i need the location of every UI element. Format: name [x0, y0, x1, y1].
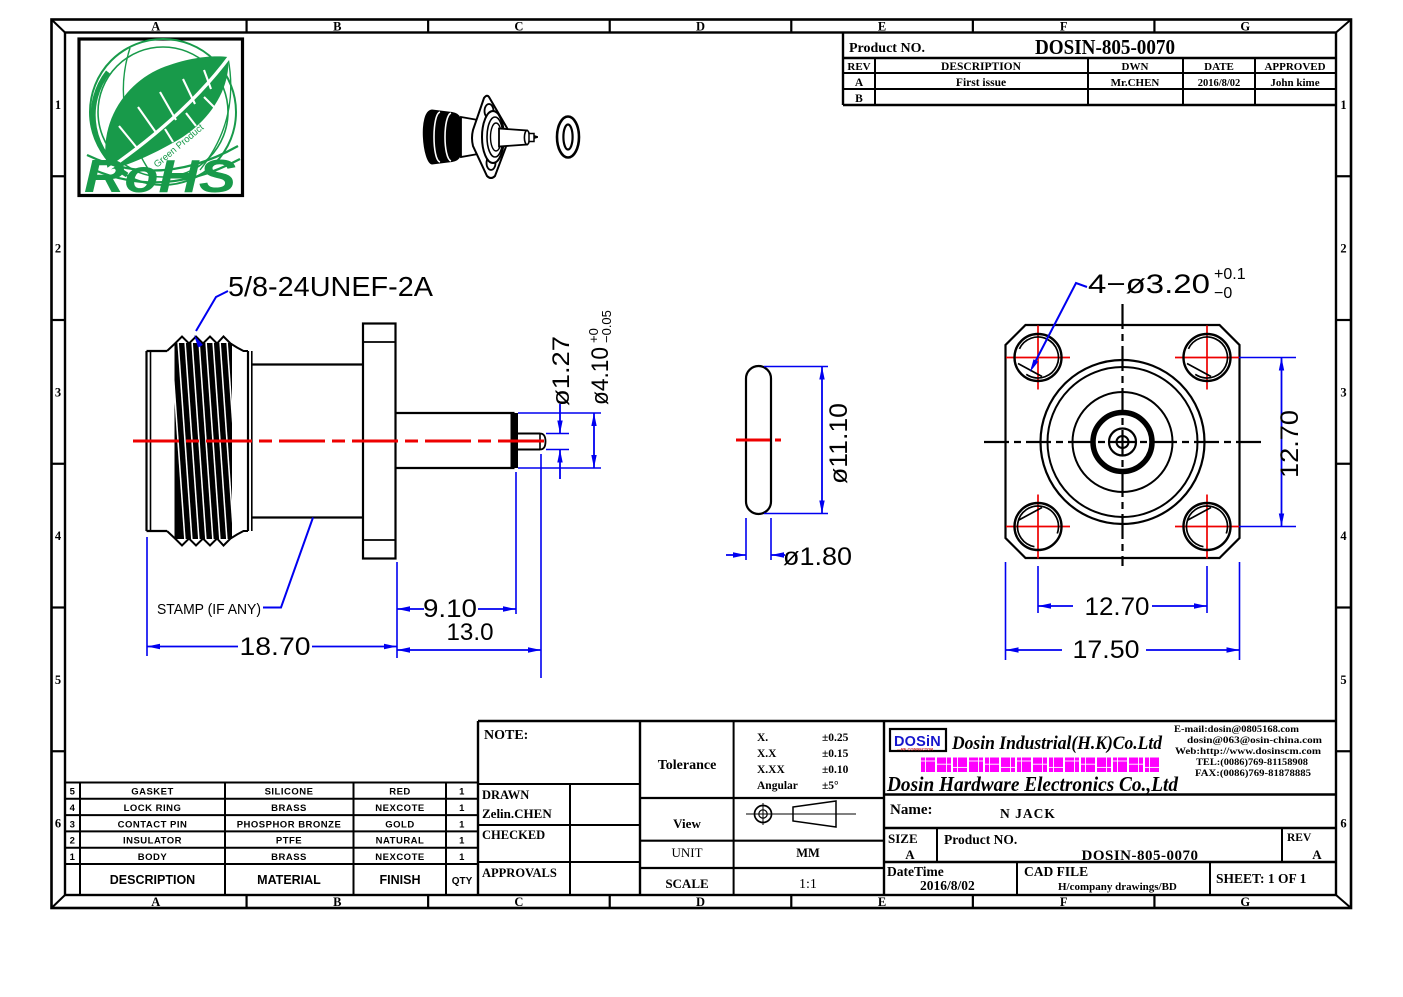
dimension 17.50 flange width — [1006, 562, 1240, 664]
svg-text:N JACK: N JACK — [1000, 806, 1056, 821]
svg-text:5: 5 — [70, 787, 76, 798]
parts list table — [65, 783, 478, 896]
svg-text:C: C — [514, 20, 523, 34]
svg-text:Product NO.: Product NO. — [944, 832, 1017, 847]
svg-text:DRAWN: DRAWN — [482, 788, 529, 802]
svg-text:CHECKED: CHECKED — [482, 828, 545, 842]
svg-text:−0: −0 — [1214, 285, 1232, 302]
svg-text:2: 2 — [70, 836, 76, 847]
svg-text:DESCRIPTION: DESCRIPTION — [110, 873, 195, 887]
svg-text:D: D — [696, 895, 705, 909]
svg-text:X.: X. — [757, 732, 768, 744]
svg-text:2: 2 — [1340, 242, 1346, 256]
front view: mounting hole 2 with red crosshair — [1175, 326, 1239, 390]
svg-text:Product NO.: Product NO. — [849, 41, 925, 56]
svg-text:Web:http://www.dosinscm.com: Web:http://www.dosinscm.com — [1175, 747, 1321, 757]
svg-text:4: 4 — [55, 529, 62, 543]
svg-text:X.X: X.X — [757, 748, 777, 760]
side view: thread end faces — [248, 351, 252, 531]
svg-text:SIZE: SIZE — [888, 831, 918, 846]
svg-text:B: B — [333, 20, 341, 34]
svg-text:A: A — [1312, 847, 1322, 862]
svg-text:NEXCOTE: NEXCOTE — [375, 852, 424, 863]
svg-text:1: 1 — [1340, 98, 1346, 112]
side view: red centerline — [133, 440, 549, 443]
company names — [951, 733, 1162, 754]
svg-text:DOSIN-805-0070: DOSIN-805-0070 — [1081, 848, 1198, 864]
svg-text:5: 5 — [1340, 673, 1346, 687]
svg-text:LOCK RING: LOCK RING — [124, 803, 182, 814]
svg-text:A: A — [855, 77, 864, 89]
svg-text:ø1.27: ø1.27 — [548, 336, 575, 406]
svg-text:APPROVED: APPROVED — [1264, 61, 1325, 73]
svg-text:3: 3 — [1340, 385, 1346, 399]
svg-text:B: B — [855, 93, 863, 105]
svg-text:View: View — [673, 816, 701, 831]
dimension dia 4.10 shaft with tolerance — [518, 310, 614, 468]
svg-text:5: 5 — [55, 673, 61, 687]
svg-text:G: G — [1240, 20, 1250, 34]
svg-text:FINISH: FINISH — [380, 873, 421, 887]
svg-text:B: B — [333, 895, 341, 909]
svg-text:Dosin Hardware Electronics Co.: Dosin Hardware Electronics Co.,Ltd — [886, 772, 1179, 796]
svg-text:GOLD: GOLD — [385, 819, 414, 830]
svg-text:Zelin.CHEN: Zelin.CHEN — [482, 806, 552, 821]
svg-text:−0.05: −0.05 — [599, 310, 614, 343]
svg-text:—RF CONNECTOR: —RF CONNECTOR — [897, 747, 933, 752]
svg-text:F: F — [1060, 895, 1068, 909]
svg-text:ø4.10: ø4.10 — [587, 347, 614, 405]
dimension 12.70 horizontal hole spacing — [1038, 566, 1207, 621]
svg-text:CAD FILE: CAD FILE — [1024, 864, 1088, 879]
svg-text:First issue: First issue — [956, 77, 1006, 89]
svg-text:1: 1 — [459, 852, 465, 863]
datetime / cad file / sheet row — [887, 864, 1307, 893]
svg-text:Angular: Angular — [757, 780, 798, 792]
svg-text:1: 1 — [70, 852, 76, 863]
svg-text:3: 3 — [70, 819, 76, 830]
front view: dashed centerlines — [984, 304, 1262, 566]
label STAMP (IF ANY) with leader — [157, 518, 313, 619]
svg-text:Name:: Name: — [890, 802, 932, 818]
svg-text:H/company drawings/BD: H/company drawings/BD — [1058, 881, 1177, 893]
svg-text:SHEET: 1 OF 1: SHEET: 1 OF 1 — [1216, 871, 1307, 886]
third angle projection symbol — [746, 801, 856, 827]
dimension 18.70 overall length — [147, 537, 397, 661]
note and signature block — [478, 721, 1336, 895]
side view: thread hatching — [171, 341, 248, 541]
svg-text:dosin@063@osin-china.com: dosin@063@osin-china.com — [1187, 736, 1322, 746]
svg-text:4−ø3.20: 4−ø3.20 — [1088, 269, 1210, 299]
front view: mounting hole 1 with red crosshair — [1006, 326, 1070, 390]
svg-text:STAMP (IF ANY): STAMP (IF ANY) — [157, 602, 261, 618]
svg-text:C: C — [514, 895, 523, 909]
svg-text:NEXCOTE: NEXCOTE — [375, 803, 424, 814]
svg-text:MM: MM — [796, 846, 820, 860]
svg-text:A: A — [151, 895, 160, 909]
svg-text:PHOSPHOR BRONZE: PHOSPHOR BRONZE — [237, 819, 342, 830]
svg-text:1:1: 1:1 — [799, 877, 817, 892]
revision history table — [843, 33, 1336, 106]
svg-text:1: 1 — [459, 836, 465, 847]
svg-text:INSULATOR: INSULATOR — [123, 836, 182, 847]
svg-text:GASKET: GASKET — [131, 787, 174, 798]
tolerance / view / unit / scale block — [640, 721, 884, 895]
front view: square flange plate — [1006, 325, 1240, 558]
svg-text:ø1.80: ø1.80 — [783, 543, 852, 571]
side view: body cylinder — [252, 365, 363, 518]
svg-text:TEL:(0086)769-81158908: TEL:(0086)769-81158908 — [1196, 757, 1308, 768]
svg-text:13.0: 13.0 — [447, 619, 494, 646]
dimension dia 11.10 gasket — [764, 367, 853, 514]
svg-text:4: 4 — [1340, 529, 1347, 543]
company logo and title block — [884, 721, 1336, 895]
svg-text:±0.25: ±0.25 — [822, 732, 849, 744]
svg-text:CONTACT PIN: CONTACT PIN — [118, 819, 188, 830]
svg-text:RED: RED — [389, 787, 411, 798]
front view: mounting hole 4 with red crosshair — [1175, 495, 1239, 559]
dimension 13.0 to pin tip — [397, 454, 541, 678]
svg-text:2016/8/02: 2016/8/02 — [1198, 78, 1241, 89]
dimension dia 1.80 gasket thickness — [726, 518, 852, 571]
dimension 9.10 shaft length — [397, 472, 516, 623]
svg-text:SILICONE: SILICONE — [265, 787, 314, 798]
svg-text:DOSIN-805-0070: DOSIN-805-0070 — [1035, 35, 1175, 59]
svg-text:NATURAL: NATURAL — [376, 836, 425, 847]
svg-text:1: 1 — [459, 787, 465, 798]
svg-text:4: 4 — [70, 803, 76, 814]
svg-text:RoHS: RoHS — [84, 150, 236, 202]
svg-text:1: 1 — [459, 819, 465, 830]
svg-text:6: 6 — [55, 817, 61, 831]
gasket side view capsule — [746, 366, 771, 514]
side view: rear shaft — [396, 413, 519, 468]
svg-text:12.70: 12.70 — [1085, 593, 1150, 621]
svg-text:±5°: ±5° — [822, 780, 839, 792]
svg-text:DWN: DWN — [1122, 61, 1149, 73]
svg-text:A: A — [905, 847, 915, 862]
front view: concentric circles of connector interface — [1041, 360, 1205, 524]
gasket red centerline — [736, 439, 781, 442]
svg-text:A: A — [151, 20, 160, 34]
svg-text:QTY: QTY — [452, 876, 473, 887]
side view: mounting flange — [363, 324, 396, 559]
svg-text:APPROVALS: APPROVALS — [482, 866, 557, 880]
dimension 4-dia3.20 hole callout — [1028, 266, 1246, 373]
svg-text:ø11.10: ø11.10 — [825, 403, 853, 484]
svg-text:REV: REV — [1287, 832, 1312, 844]
svg-text:E: E — [878, 20, 886, 34]
side view: connector body outline — [147, 337, 249, 546]
dimension 5/8-24UNEF-2A thread callout — [192, 271, 434, 348]
svg-text:18.70: 18.70 — [240, 633, 311, 661]
svg-text:2016/8/02: 2016/8/02 — [920, 878, 975, 893]
svg-text:Dosin Industrial(H.K)Co.Ltd: Dosin Industrial(H.K)Co.Ltd — [951, 733, 1162, 754]
svg-text:1: 1 — [55, 98, 61, 112]
svg-text:NOTE:: NOTE: — [484, 728, 528, 743]
svg-text:BRASS: BRASS — [271, 852, 307, 863]
svg-text:±0.10: ±0.10 — [822, 764, 849, 776]
svg-text:DateTime: DateTime — [887, 864, 944, 879]
svg-text:17.50: 17.50 — [1073, 636, 1140, 664]
svg-text:E-mail:dosin@0805168.com: E-mail:dosin@0805168.com — [1174, 725, 1299, 735]
svg-text:2: 2 — [55, 242, 61, 256]
svg-text:Tolerance: Tolerance — [658, 758, 717, 773]
svg-text:Mr.CHEN: Mr.CHEN — [1111, 77, 1160, 89]
svg-text:5/8-24UNEF-2A: 5/8-24UNEF-2A — [228, 271, 433, 302]
svg-text:FAX:(0086)769-81878885: FAX:(0086)769-81878885 — [1195, 768, 1311, 779]
svg-text:UNIT: UNIT — [671, 845, 702, 860]
DOSIN blue logo — [890, 729, 946, 752]
svg-text:E: E — [878, 895, 886, 909]
svg-text:John kime: John kime — [1270, 77, 1319, 89]
svg-text:6: 6 — [1340, 817, 1346, 831]
front view: mounting hole 3 with red crosshair — [1006, 495, 1070, 559]
svg-text:MATERIAL: MATERIAL — [257, 873, 321, 887]
svg-text:12.70: 12.70 — [1276, 410, 1304, 478]
dimension 12.70 vertical hole spacing — [1239, 358, 1304, 527]
svg-text:X.XX: X.XX — [757, 764, 785, 776]
dimension dia 1.27 pin — [546, 336, 575, 479]
svg-text:SCALE: SCALE — [665, 876, 708, 891]
contact info — [1174, 725, 1322, 779]
svg-text:PTFE: PTFE — [276, 836, 302, 847]
svg-text:±0.15: ±0.15 — [822, 748, 849, 760]
svg-text:F: F — [1060, 20, 1068, 34]
size / product no / rev row — [888, 831, 1322, 864]
unit and scale cells — [665, 845, 820, 892]
svg-text:BODY: BODY — [138, 852, 168, 863]
svg-text:1: 1 — [459, 803, 465, 814]
svg-text:+0.1: +0.1 — [1214, 266, 1246, 283]
side view: contact pin tail — [518, 434, 546, 450]
svg-text:BRASS: BRASS — [271, 803, 307, 814]
svg-text:G: G — [1240, 895, 1250, 909]
chinese company name (stylized blocks) — [921, 758, 1159, 773]
svg-text:DATE: DATE — [1204, 61, 1234, 73]
svg-text:3: 3 — [55, 385, 61, 399]
RoHS green product logo — [79, 39, 243, 202]
name row — [890, 802, 1056, 821]
svg-text:D: D — [696, 20, 705, 34]
isometric 3D view of connector — [423, 96, 579, 178]
svg-text:REV: REV — [847, 61, 870, 73]
svg-text:DESCRIPTION: DESCRIPTION — [941, 61, 1022, 73]
